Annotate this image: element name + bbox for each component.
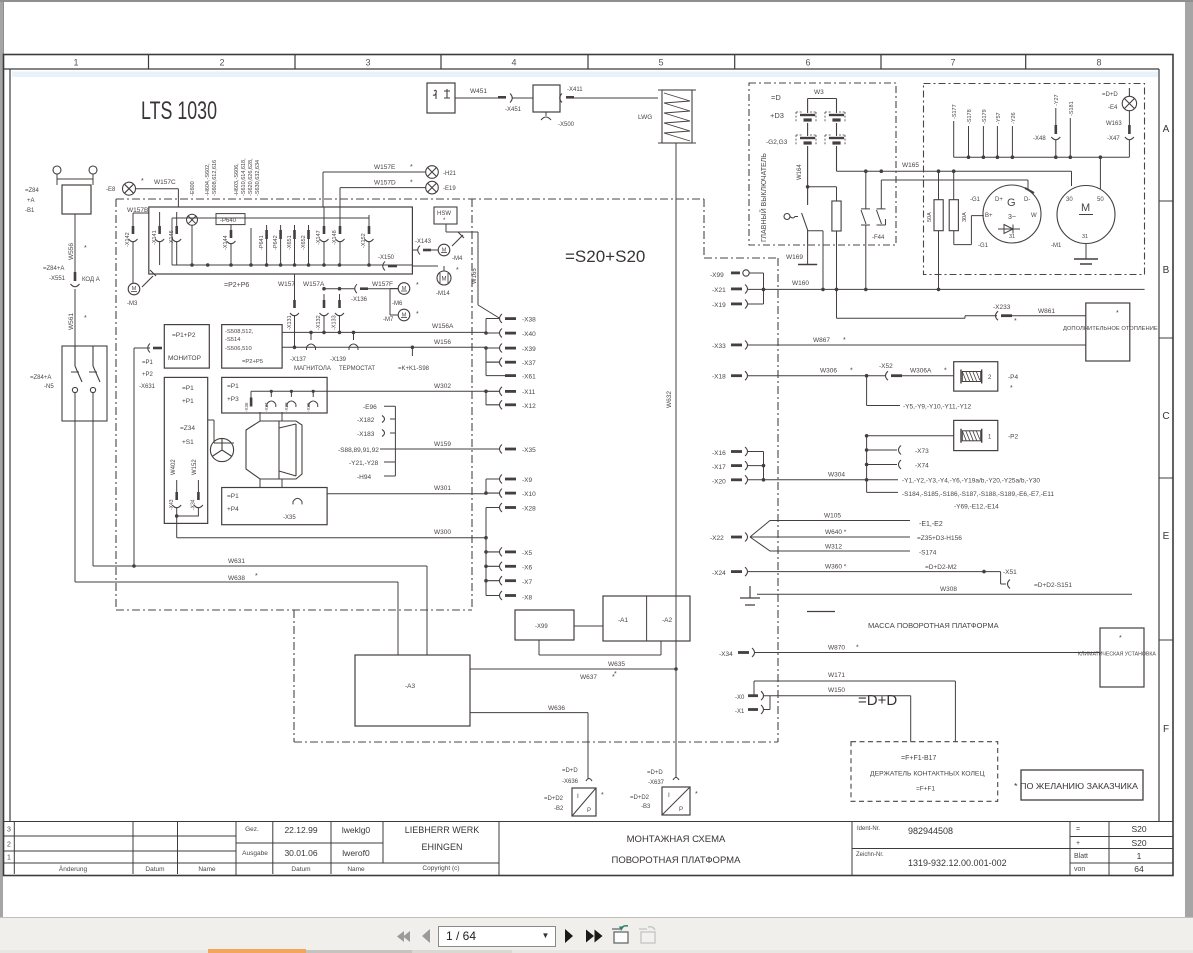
dash-dot box starter-generator area — [924, 84, 1145, 275]
motor M6 — [398, 283, 410, 295]
wire W157D — [340, 188, 426, 207]
battery terminal left — [53, 166, 61, 174]
svg-text:1: 1 — [7, 855, 11, 862]
junction dot X24 wire — [982, 570, 986, 574]
svg-text:-B2: -B2 — [554, 806, 564, 812]
svg-text:Zeichn-Nr.: Zeichn-Nr. — [856, 852, 884, 858]
svg-text:Blatt: Blatt — [1074, 853, 1088, 860]
svg-text:50A: 50A — [927, 212, 933, 222]
dash-dot box main battery switch area — [749, 83, 896, 245]
svg-text:=D+D2-M2: =D+D2-M2 — [925, 564, 957, 571]
svg-text:=P1: =P1 — [182, 385, 194, 392]
wire terminal posts — [57, 174, 93, 185]
label =Z84 +A -B1 — [25, 188, 40, 214]
lamp E19 — [426, 181, 439, 194]
seat outline — [246, 421, 302, 479]
svg-text:-S88,89,91,92: -S88,89,91,92 — [338, 447, 379, 454]
svg-text:C: C — [1162, 411, 1169, 422]
svg-text:ДЕРЖАТЕЛЬ КОНТАКТНЫХ КОЛЕЦ: ДЕРЖАТЕЛЬ КОНТАКТНЫХ КОЛЕЦ — [870, 771, 984, 778]
svg-text:W451: W451 — [470, 88, 487, 95]
svg-text:A: A — [1163, 124, 1170, 135]
motor M4 — [438, 244, 450, 256]
connector X99m — [710, 270, 764, 279]
svg-text:-X12: -X12 — [522, 403, 536, 410]
connector X143 — [418, 246, 438, 255]
svg-text:-X142: -X142 — [125, 232, 131, 247]
valve bracket vertical — [866, 436, 868, 493]
wire branch to heater — [837, 289, 998, 318]
ground platform — [740, 586, 760, 605]
svg-text:LTS 1030: LTS 1030 — [141, 97, 217, 125]
tag P642 — [279, 225, 282, 265]
svg-text:P: P — [679, 807, 683, 813]
svg-text:*: * — [141, 178, 144, 185]
connector X7 — [486, 576, 533, 586]
auxiliary heater box — [1086, 303, 1130, 361]
fuse 50A second — [949, 171, 958, 231]
svg-text:-A1: -A1 — [618, 617, 629, 624]
list bracket E96 group — [380, 406, 395, 476]
svg-text:*: * — [416, 311, 419, 318]
tag X652 — [307, 225, 310, 265]
svg-text:-X147: -X147 — [316, 230, 322, 245]
svg-text:-X35: -X35 — [283, 515, 296, 521]
selection band — [12, 72, 1158, 78]
svg-text:W157: W157 — [278, 281, 295, 288]
svg-text:1: 1 — [988, 435, 992, 441]
svg-text:-X148: -X148 — [332, 230, 338, 245]
part numbers — [856, 826, 884, 858]
svg-text:-X500: -X500 — [558, 122, 575, 128]
svg-text:-X17: -X17 — [712, 464, 726, 471]
svg-text:-X38: -X38 — [522, 317, 536, 324]
svg-text:W302: W302 — [434, 383, 451, 390]
connector X144 — [227, 230, 236, 265]
wire W635 — [539, 640, 661, 655]
sheet table — [1074, 826, 1088, 873]
connector X22 — [710, 533, 748, 543]
wire fuse to B+ terminal — [954, 216, 984, 245]
svg-text:W556: W556 — [68, 243, 75, 260]
svg-text:-G1: -G1 — [978, 243, 989, 249]
connector X6 — [486, 562, 533, 572]
lamp H21 — [426, 166, 439, 179]
svg-text:-X631: -X631 — [139, 384, 156, 390]
zone letters A B C E F — [1162, 124, 1169, 735]
wire W150 drop — [910, 696, 912, 742]
svg-text:-X37: -X37 — [522, 360, 536, 367]
svg-text:-Y26: -Y26 — [1011, 112, 1017, 124]
svg-text:+D3: +D3 — [770, 111, 784, 120]
svg-text:+A: +A — [27, 198, 35, 204]
svg-text:Änderung: Änderung — [59, 865, 88, 873]
svg-text:M: M — [402, 286, 407, 292]
hook glyph inside B1 — [433, 90, 436, 99]
connector X38a — [287, 390, 296, 407]
svg-text:-X132: -X132 — [316, 315, 322, 330]
svg-text:-X652: -X652 — [301, 235, 307, 250]
svg-text:-X43: -X43 — [169, 499, 175, 510]
wire W165 drop from HSW — [446, 224, 500, 319]
rotated wire tags E600 H604 S608 H603 S610 S620 S630 — [190, 158, 261, 196]
wire W165 into generator area — [954, 171, 1072, 186]
connector X35a — [309, 390, 318, 407]
wire W556 — [74, 214, 76, 272]
labels inside console — [180, 385, 195, 446]
label =P1+P2 MONITOR — [168, 332, 201, 362]
svg-text:50: 50 — [1097, 197, 1104, 203]
connector X37 — [486, 358, 536, 367]
svg-text:-X16: -X16 — [712, 450, 726, 457]
generator diode — [998, 225, 1020, 234]
inner drawing frame — [10, 69, 1159, 822]
wire S184 list — [867, 491, 898, 493]
svg-text:-S178: -S178 — [967, 109, 973, 124]
svg-text:=Z35+D3-H156: =Z35+D3-H156 — [917, 535, 962, 542]
connector X18 — [712, 371, 885, 380]
svg-text:Datum: Datum — [145, 866, 164, 873]
junction dots on bus — [190, 263, 371, 267]
connector X37a — [267, 390, 276, 407]
svg-text:Copyright (c): Copyright (c) — [422, 865, 459, 872]
svg-text:-S610,614,618,: -S610,614,618, — [241, 158, 247, 196]
wire fan W640 — [750, 536, 910, 538]
svg-text:=D+D: =D+D — [858, 692, 897, 709]
svg-text:lweklg0: lweklg0 — [342, 825, 371, 835]
slip ring holder dashed box — [851, 742, 998, 802]
wire fan W105 — [750, 521, 910, 538]
connector X34s — [177, 480, 203, 516]
dash-dot boundary left equipment region — [116, 199, 704, 610]
svg-text:W312: W312 — [825, 544, 842, 551]
customer option box — [1021, 770, 1143, 800]
svg-text:-X233: -X233 — [993, 304, 1011, 311]
svg-text:-X6: -X6 — [522, 565, 533, 572]
drawing title — [612, 834, 742, 866]
seat console box Z34 S1 — [164, 377, 207, 523]
svg-text:-F44: -F44 — [872, 235, 885, 241]
svg-text:W640 *: W640 * — [825, 529, 847, 536]
label X137 MAGNITOLA — [290, 357, 331, 372]
svg-text:30A: 30A — [962, 212, 968, 222]
relay box P2+P5 — [222, 325, 282, 369]
junction dots — [322, 287, 341, 291]
wire W637 — [470, 668, 676, 670]
connector X137 stub — [307, 331, 316, 350]
battery terminal right — [89, 166, 97, 174]
svg-text:I: I — [577, 793, 579, 800]
svg-text:W165: W165 — [472, 268, 478, 284]
monitor box P1+P2 — [164, 325, 209, 369]
svg-text:-X133: -X133 — [332, 315, 338, 330]
svg-text:-X451: -X451 — [505, 107, 522, 113]
svg-text:-X21: -X21 — [712, 287, 726, 294]
fuse F in switch box — [832, 201, 841, 289]
svg-text:-S179: -S179 — [982, 109, 988, 124]
svg-text:=: = — [1076, 826, 1080, 833]
svg-text:+S1: +S1 — [182, 439, 194, 446]
svg-text:-X35: -X35 — [522, 447, 536, 454]
svg-text:-S181: -S181 — [1069, 101, 1075, 116]
wire X16 X17 X20 bracket — [763, 452, 765, 480]
svg-text:+P1: +P1 — [182, 398, 194, 405]
svg-text:W304: W304 — [828, 472, 845, 479]
svg-text:-E1,-E2: -E1,-E2 — [919, 521, 943, 528]
svg-text:3: 3 — [7, 827, 11, 834]
wire W632 to B3 — [675, 669, 677, 778]
wire W302 — [251, 390, 486, 392]
svg-text:W360 *: W360 * — [825, 564, 847, 571]
svg-text:-H603,-S606,: -H603,-S606, — [234, 163, 240, 196]
svg-text:7: 7 — [950, 58, 955, 68]
svg-text:-X1: -X1 — [735, 709, 745, 715]
labels inside P2+P5 — [225, 329, 263, 365]
motor M7 — [398, 309, 410, 321]
svg-text:31: 31 — [1082, 234, 1088, 240]
svg-text:-M4: -M4 — [452, 256, 463, 262]
svg-text:W300: W300 — [434, 529, 451, 536]
connector X182 — [357, 416, 385, 425]
connector X73 — [867, 446, 930, 456]
svg-text:-X411: -X411 — [567, 87, 583, 93]
svg-text:*: * — [416, 282, 419, 289]
svg-text:=Z84+A: =Z84+A — [43, 266, 64, 272]
junction dots W160 — [762, 288, 941, 292]
svg-text:-X136: -X136 — [351, 297, 368, 303]
svg-text:D+: D+ — [995, 197, 1003, 203]
svg-text:LIEBHERR WERK: LIEBHERR WERK — [405, 825, 480, 835]
svg-text:W: W — [1031, 213, 1037, 219]
connector X142 — [129, 226, 138, 284]
svg-text:-X20: -X20 — [712, 479, 726, 486]
svg-text:982944508: 982944508 — [908, 826, 953, 836]
wire W163 — [1128, 111, 1130, 125]
svg-text:W152: W152 — [192, 459, 198, 475]
connector X500 pigtail — [541, 112, 551, 120]
svg-text:-X5: -X5 — [522, 550, 533, 557]
svg-text:=S20+S20: =S20+S20 — [565, 247, 645, 266]
connector X11 — [486, 387, 536, 396]
wire W636 — [470, 713, 588, 779]
label =Z84+A -N5 — [30, 375, 54, 390]
svg-text:W635: W635 — [608, 661, 625, 668]
svg-text:-Y57: -Y57 — [996, 112, 1002, 124]
svg-text:*: * — [850, 368, 853, 375]
svg-text:HSW: HSW — [437, 211, 451, 217]
bus bar inside box — [172, 264, 412, 266]
motor M3 — [128, 283, 140, 295]
labels S177 S178 S179 Y57 Y26 — [952, 104, 1017, 124]
connector X150 — [383, 262, 397, 271]
wire W156A — [282, 331, 486, 333]
svg-text:Ident-Nr.: Ident-Nr. — [857, 826, 880, 832]
svg-text:=D: =D — [771, 93, 781, 102]
svg-text:-S620,626,628,: -S620,626,628, — [248, 158, 254, 196]
connector X35b — [293, 498, 302, 504]
svg-text:W169: W169 — [786, 254, 803, 261]
lamp E8 — [123, 182, 136, 195]
svg-text:E: E — [1163, 531, 1170, 542]
pressure transducer B2 — [572, 779, 596, 817]
tag X651 — [293, 225, 296, 265]
svg-text:-H94: -H94 — [357, 474, 371, 481]
connector X38 — [486, 314, 536, 324]
switch N5 contacts — [71, 346, 100, 393]
svg-text:-X52: -X52 — [879, 363, 893, 370]
battery G3 — [825, 99, 845, 172]
svg-text:-Y27: -Y27 — [1054, 94, 1060, 106]
connector X551 — [71, 272, 80, 287]
svg-text:-S184,-S185,-S186,-S187,-S188,: -S184,-S185,-S186,-S187,-S188,-S189,-E6,… — [902, 491, 1054, 498]
svg-text:31: 31 — [1009, 234, 1015, 240]
junction dots stack — [484, 331, 488, 582]
svg-text:2: 2 — [7, 842, 11, 849]
svg-text:МОНИТОР: МОНИТОР — [168, 355, 201, 362]
connector X451 — [498, 94, 533, 103]
svg-text:-X73: -X73 — [915, 448, 929, 455]
wire W171 — [754, 681, 955, 742]
wire W301 — [327, 493, 486, 495]
svg-text:W637: W637 — [580, 674, 597, 681]
svg-text:-S508,512,: -S508,512, — [225, 329, 254, 335]
svg-text:=Z34: =Z34 — [180, 425, 195, 432]
svg-text:-X19: -X19 — [712, 302, 726, 309]
connector X152 — [365, 215, 374, 265]
svg-text:-H604,-S602,: -H604,-S602, — [205, 163, 211, 196]
svg-text:-Y21,-Y28: -Y21,-Y28 — [349, 460, 379, 467]
wire bracket M6 M7 — [390, 289, 398, 316]
connector X35 — [500, 445, 537, 455]
svg-text:M: M — [132, 286, 137, 292]
toolbar next button — [565, 929, 573, 943]
wire to X143 — [412, 249, 418, 251]
svg-text:ДОПОЛНИТЕЛЬНОЕ ОТОПЛЕНИЕ: ДОПОЛНИТЕЛЬНОЕ ОТОПЛЕНИЕ — [1063, 326, 1158, 332]
svg-text:*: * — [84, 245, 87, 252]
svg-text:-S177: -S177 — [952, 104, 958, 119]
junction dot — [175, 514, 179, 518]
svg-text:-P641: -P641 — [259, 235, 265, 250]
svg-text:M: M — [442, 248, 447, 254]
svg-text:-E96: -E96 — [363, 404, 377, 411]
wire X99 to A1 — [574, 625, 603, 627]
toolbar rotate-page icon disabled — [639, 927, 655, 943]
svg-text:=P1: =P1 — [227, 493, 239, 500]
generator G — [983, 185, 1041, 243]
wire M1 ground — [1085, 244, 1087, 260]
svg-text:I: I — [668, 792, 670, 799]
svg-text:M: M — [442, 277, 447, 283]
ground M1 — [1074, 259, 1098, 264]
svg-text:Name: Name — [347, 866, 365, 873]
lamp E600 inside box — [187, 214, 198, 265]
svg-text:W402: W402 — [171, 459, 177, 475]
svg-text:-X28: -X28 — [522, 506, 536, 513]
connector X10 — [486, 489, 536, 498]
connector X5 — [486, 547, 533, 557]
connector X12 — [486, 400, 536, 410]
svg-text:W157C: W157C — [154, 179, 176, 186]
relay contact F44 right — [877, 180, 886, 225]
svg-text:22.12.99: 22.12.99 — [284, 825, 317, 835]
component B1 crane-hook box — [427, 83, 455, 113]
labels B2 — [544, 768, 579, 812]
svg-text:*: * — [1116, 310, 1119, 317]
svg-text:МАССА ПОВОРОТНАЯ ПЛАТФОРМА: МАССА ПОВОРОТНАЯ ПЛАТФОРМА — [868, 621, 999, 630]
svg-text:-M1: -M1 — [1051, 243, 1062, 249]
svg-text:Name: Name — [198, 866, 216, 873]
wire W169 to ground — [807, 245, 809, 265]
connector X17 — [712, 461, 764, 471]
svg-text:*: * — [410, 164, 413, 171]
dash-dot boundary lower region — [294, 610, 778, 742]
wire fan W312 — [750, 537, 910, 551]
svg-text:-X636: -X636 — [562, 779, 579, 785]
svg-text:W157D: W157D — [374, 180, 396, 187]
connector stack bracket verticals — [486, 319, 508, 596]
svg-text:-E8: -E8 — [106, 187, 116, 193]
wire W165 bus — [837, 170, 954, 172]
climate unit box — [1100, 628, 1144, 687]
label =D +D3 — [770, 93, 784, 120]
svg-text:Gez.: Gez. — [245, 826, 259, 833]
svg-text:G: G — [1007, 197, 1016, 209]
seat wires — [208, 412, 282, 488]
wire W451 — [455, 97, 500, 99]
dash-dot boundary S20 region right edge — [704, 199, 778, 742]
svg-text:-X11: -X11 — [522, 389, 536, 396]
svg-text:D-: D- — [1024, 197, 1030, 203]
pump motor M14 — [437, 271, 451, 285]
connector X9 — [486, 475, 533, 485]
connector X233 — [993, 304, 1086, 320]
svg-text:W867: W867 — [813, 337, 830, 344]
svg-text:-X61: -X61 — [522, 374, 536, 381]
svg-text:-X10: -X10 — [522, 491, 536, 498]
connector X183 — [357, 430, 385, 439]
svg-text:-S506,510: -S506,510 — [225, 346, 252, 352]
svg-text:1319-932.12.00.001-002: 1319-932.12.00.001-002 — [908, 858, 1007, 868]
svg-text:*: * — [443, 218, 446, 224]
svg-text:*: * — [856, 645, 859, 652]
connector box X99 — [515, 610, 574, 640]
label =P1 +P2 -X631 — [139, 360, 156, 390]
connector X136 — [355, 284, 398, 293]
revision row numbers — [7, 827, 11, 862]
connector X20 — [712, 475, 867, 485]
svg-text:6: 6 — [805, 58, 810, 68]
switch blade at M4 — [452, 232, 464, 246]
svg-text:-X47: -X47 — [1107, 136, 1120, 142]
svg-text:-X99: -X99 — [535, 624, 548, 630]
svg-text:W157A: W157A — [303, 281, 325, 288]
connector X24 — [712, 567, 1001, 577]
starter M1 labels — [1066, 197, 1104, 240]
svg-text:-X143: -X143 — [415, 239, 432, 245]
svg-text:-E19: -E19 — [443, 186, 456, 192]
svg-text:W157F: W157F — [372, 281, 393, 288]
wire from N5 left pole down — [74, 393, 76, 582]
svg-text:=D+D2: =D+D2 — [544, 796, 564, 802]
toolbar rotate-page icon — [612, 926, 628, 943]
svg-text:-P640: -P640 — [220, 218, 237, 224]
svg-text:von: von — [1074, 866, 1085, 873]
label X551 KOD A — [43, 266, 100, 283]
svg-text:=D+D2: =D+D2 — [630, 795, 650, 801]
svg-text:-H21: -H21 — [443, 171, 457, 177]
connector X132 drop — [320, 294, 329, 332]
svg-text:W561: W561 — [68, 313, 75, 330]
svg-text:*: * — [84, 315, 87, 322]
